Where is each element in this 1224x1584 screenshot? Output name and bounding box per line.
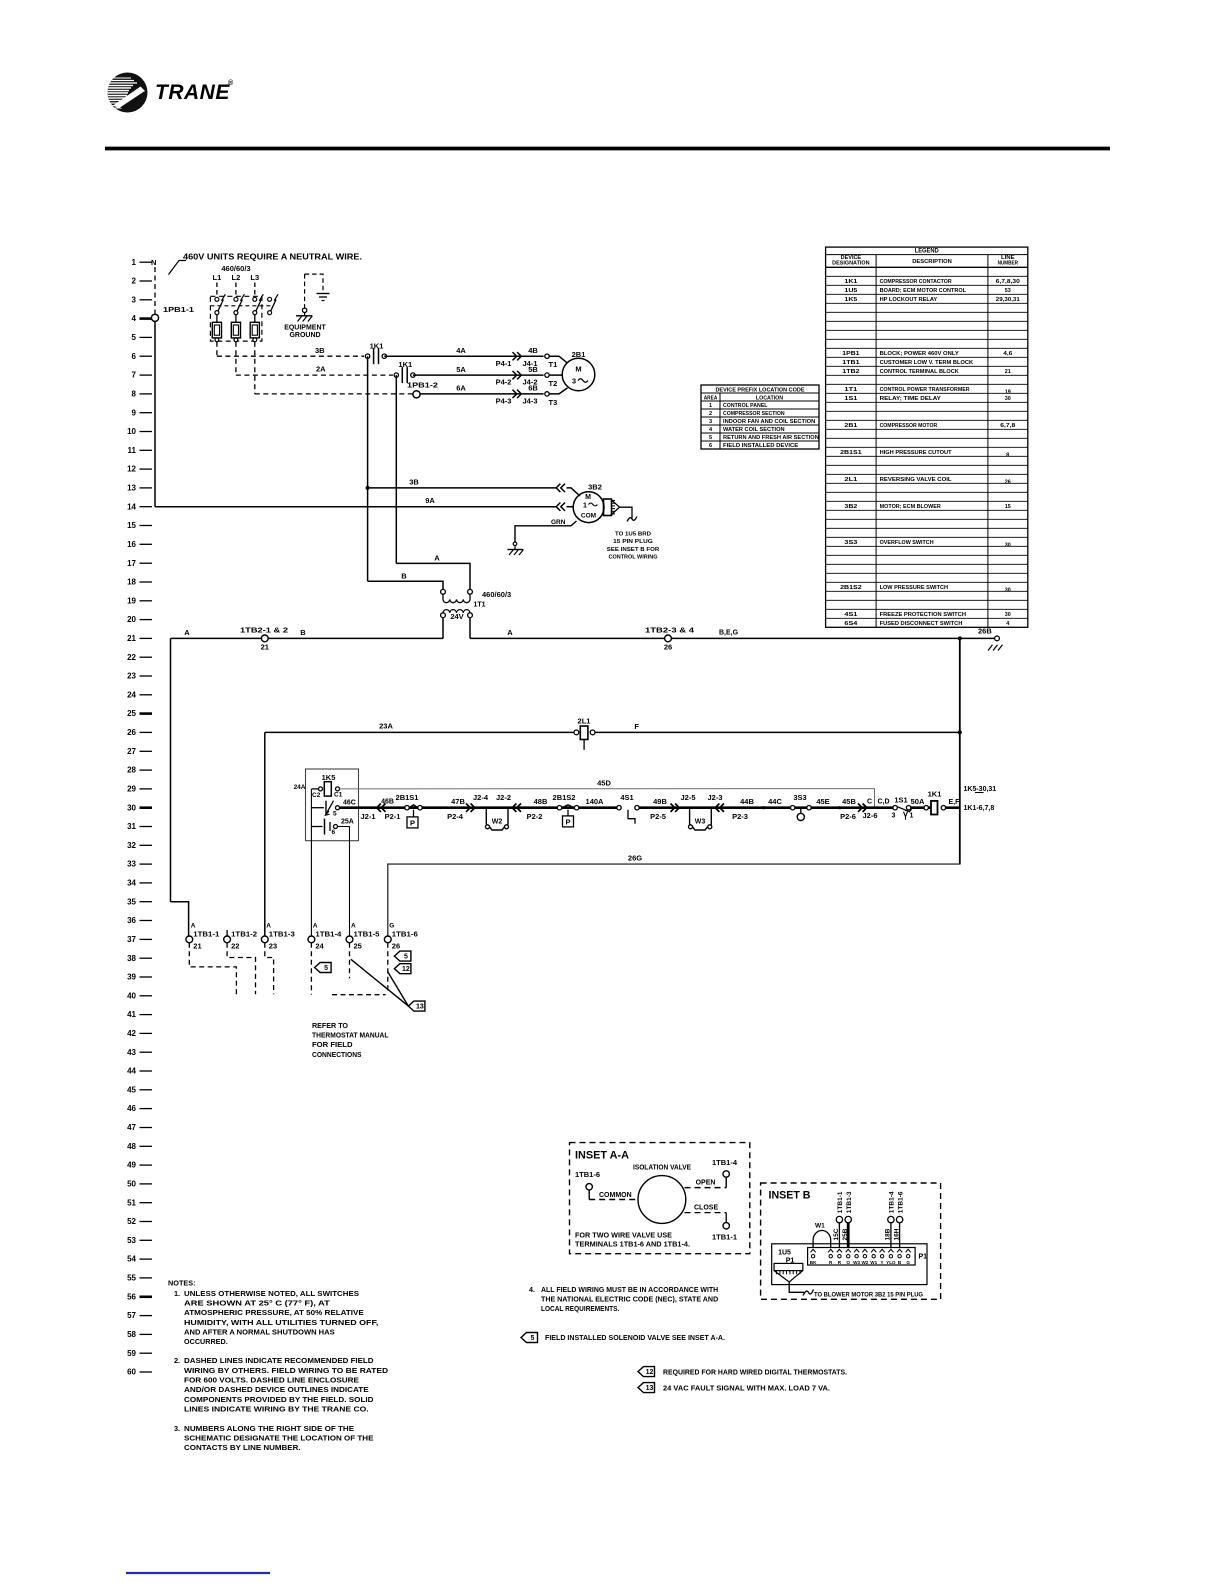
svg-text:46C: 46C bbox=[343, 800, 356, 807]
svg-text:18B: 18B bbox=[885, 1228, 892, 1240]
svg-text:1K1-6,7,8: 1K1-6,7,8 bbox=[964, 805, 995, 812]
line number scale bbox=[127, 258, 152, 1377]
svg-text:HIGH PRESSURE CUTOUT: HIGH PRESSURE CUTOUT bbox=[880, 450, 952, 456]
svg-text:32: 32 bbox=[127, 841, 136, 850]
wire 46C (heavy safety line 30) bbox=[340, 806, 621, 809]
svg-text:50: 50 bbox=[127, 1180, 136, 1189]
svg-text:REVERSING VALVE COIL: REVERSING VALVE COIL bbox=[880, 477, 952, 483]
svg-text:DEVICE PREFIX LOCATION CODE: DEVICE PREFIX LOCATION CODE bbox=[715, 387, 804, 393]
note callout 13 bbox=[408, 1001, 425, 1011]
svg-text:A: A bbox=[191, 923, 196, 930]
svg-text:DESIGNATION: DESIGNATION bbox=[832, 261, 870, 267]
svg-text:T1: T1 bbox=[549, 360, 558, 369]
svg-text:20: 20 bbox=[127, 615, 136, 624]
svg-text:TO 1U5 BRD: TO 1U5 BRD bbox=[615, 532, 651, 538]
svg-text:NUMBER: NUMBER bbox=[998, 261, 1019, 267]
field wiring 1TB1-6 bbox=[387, 943, 389, 994]
svg-text:1TB1: 1TB1 bbox=[842, 360, 860, 366]
svg-text:P1: P1 bbox=[919, 1254, 928, 1261]
svg-text:P4-1: P4-1 bbox=[496, 359, 512, 368]
svg-text:LOCATION: LOCATION bbox=[756, 395, 783, 401]
svg-text:HUMIDITY, WITH ALL UTILITIE: HUMIDITY, WITH ALL UTILITIES TURNED OFF, bbox=[184, 1318, 378, 1327]
svg-text:T2: T2 bbox=[549, 379, 558, 388]
isolation valve bbox=[638, 1176, 686, 1224]
svg-text:24: 24 bbox=[315, 942, 324, 951]
svg-text:7: 7 bbox=[132, 371, 137, 380]
svg-text:30: 30 bbox=[1005, 612, 1011, 618]
svg-text:6B: 6B bbox=[528, 384, 538, 393]
terminal 1TB1-3 (inset B) bbox=[845, 1216, 851, 1222]
terminal 1TB1-2 bbox=[224, 930, 258, 951]
svg-text:B,E,G: B,E,G bbox=[719, 630, 739, 637]
svg-text:15 PIN PLUG: 15 PIN PLUG bbox=[613, 539, 653, 545]
svg-text:2L1: 2L1 bbox=[578, 717, 591, 726]
svg-text:22: 22 bbox=[127, 653, 136, 662]
svg-text:AND AFTER A NORMAL SHUTDOW: AND AFTER A NORMAL SHUTDOWN HAS bbox=[184, 1327, 335, 1336]
svg-text:3B2: 3B2 bbox=[844, 504, 857, 510]
svg-text:1TB1-3: 1TB1-3 bbox=[269, 932, 295, 939]
svg-text:TERMINALS 1TB1-6 AND 1TB1-4: TERMINALS 1TB1-6 AND 1TB1-4. bbox=[575, 1242, 690, 1249]
svg-text:P2-4: P2-4 bbox=[447, 812, 464, 821]
svg-text:CONTACTS BY LINE NUMBER.: CONTACTS BY LINE NUMBER. bbox=[184, 1443, 301, 1452]
svg-text:THE NATIONAL ELECTRIC CODE: THE NATIONAL ELECTRIC CODE (NEC), STATE … bbox=[541, 1297, 718, 1304]
svg-text:LOW PRESSURE SWITCH: LOW PRESSURE SWITCH bbox=[880, 585, 948, 591]
svg-text:3: 3 bbox=[132, 295, 137, 304]
svg-text:41: 41 bbox=[127, 1010, 136, 1019]
svg-text:24: 24 bbox=[127, 690, 136, 699]
svg-text:REFER TO: REFER TO bbox=[312, 1021, 348, 1030]
svg-text:J2-2: J2-2 bbox=[496, 793, 511, 802]
svg-text:TO BLOWER MOTOR 3B2 15 PI: TO BLOWER MOTOR 3B2 15 PIN PLUG bbox=[814, 1291, 923, 1298]
svg-text:19: 19 bbox=[127, 596, 136, 605]
svg-text:57: 57 bbox=[127, 1311, 136, 1320]
svg-text:J4-3: J4-3 bbox=[522, 396, 537, 405]
svg-text:44: 44 bbox=[127, 1067, 136, 1076]
svg-text:AREA: AREA bbox=[704, 395, 718, 401]
notes bbox=[168, 1279, 847, 1453]
svg-text:1TB1-4: 1TB1-4 bbox=[889, 1191, 896, 1213]
svg-text:YLO: YLO bbox=[886, 1260, 896, 1265]
field wiring 1TB1-3 bbox=[265, 943, 274, 995]
svg-text:W1: W1 bbox=[815, 1223, 825, 1230]
svg-text:16H: 16H bbox=[893, 1228, 900, 1240]
svg-text:2B1S2: 2B1S2 bbox=[840, 585, 862, 591]
svg-text:3: 3 bbox=[709, 419, 712, 425]
svg-text:1PB1-2: 1PB1-2 bbox=[407, 383, 438, 390]
svg-text:W1: W1 bbox=[870, 1260, 877, 1265]
svg-text:BOARD; ECM MOTOR CONTROL: BOARD; ECM MOTOR CONTROL bbox=[880, 288, 967, 294]
jumper W1 (inset B) bbox=[813, 1231, 831, 1248]
svg-text:25A: 25A bbox=[341, 819, 354, 826]
svg-text:49: 49 bbox=[127, 1161, 136, 1170]
svg-text:6: 6 bbox=[332, 829, 336, 836]
svg-text:3S3: 3S3 bbox=[793, 793, 806, 802]
svg-text:46: 46 bbox=[127, 1104, 136, 1113]
svg-text:2B1S2: 2B1S2 bbox=[553, 793, 576, 802]
wire left rail to 1TB1-1 bbox=[170, 638, 172, 901]
inset A-A bbox=[570, 1143, 750, 1254]
svg-text:11: 11 bbox=[128, 446, 137, 455]
svg-text:460/60/3: 460/60/3 bbox=[221, 264, 250, 273]
svg-text:CONTROL PANEL: CONTROL PANEL bbox=[723, 403, 768, 409]
svg-text:18: 18 bbox=[127, 578, 136, 587]
svg-text:ARE SHOWN AT 25° C (77°: ARE SHOWN AT 25° C (77° F), AT bbox=[184, 1299, 330, 1308]
svg-text:1TB1-6: 1TB1-6 bbox=[575, 1172, 600, 1179]
svg-text:43: 43 bbox=[127, 1048, 136, 1057]
svg-text:26: 26 bbox=[1005, 480, 1012, 486]
svg-text:INDOOR FAN AND COIL SECTIO: INDOOR FAN AND COIL SECTION bbox=[723, 419, 815, 425]
svg-text:P2-6: P2-6 bbox=[840, 812, 856, 821]
pin R bbox=[837, 1249, 842, 1252]
svg-text:O: O bbox=[846, 1260, 850, 1265]
wire 15C bbox=[838, 1223, 840, 1248]
svg-text:5: 5 bbox=[531, 1335, 535, 1342]
svg-text:51: 51 bbox=[127, 1198, 136, 1207]
wire 18B bbox=[890, 1223, 892, 1248]
svg-text:40: 40 bbox=[127, 991, 136, 1000]
pin G bbox=[906, 1249, 911, 1252]
svg-text:SCHEMATIC DESIGNATE THE LOC: SCHEMATIC DESIGNATE THE LOCATION OF THE bbox=[184, 1434, 374, 1443]
svg-text:23: 23 bbox=[127, 672, 136, 681]
svg-text:26: 26 bbox=[127, 728, 136, 737]
svg-text:39: 39 bbox=[127, 973, 136, 982]
svg-text:3: 3 bbox=[572, 377, 576, 386]
svg-text:A: A bbox=[507, 628, 513, 637]
wire line 21 left bbox=[171, 637, 444, 639]
svg-text:L3: L3 bbox=[250, 273, 259, 282]
svg-text:B: B bbox=[401, 571, 407, 580]
svg-text:FIELD INSTALLED SOLENOID VA: FIELD INSTALLED SOLENOID VALVE SEE INSET… bbox=[545, 1335, 725, 1342]
svg-text:INSET B: INSET B bbox=[769, 1190, 811, 1202]
svg-text:E,F: E,F bbox=[949, 799, 961, 806]
svg-text:23A: 23A bbox=[379, 722, 393, 731]
svg-text:CONNECTIONS: CONNECTIONS bbox=[312, 1050, 362, 1059]
svg-text:42: 42 bbox=[127, 1029, 136, 1038]
svg-text:5: 5 bbox=[404, 954, 408, 961]
svg-text:48: 48 bbox=[127, 1142, 136, 1151]
svg-text:21: 21 bbox=[193, 942, 201, 951]
svg-text:23: 23 bbox=[269, 942, 277, 951]
wire 2A bbox=[235, 342, 237, 375]
svg-text:W3: W3 bbox=[695, 819, 706, 826]
svg-text:30: 30 bbox=[1005, 588, 1011, 594]
svg-text:28: 28 bbox=[127, 766, 136, 775]
svg-text:2.: 2. bbox=[174, 1356, 180, 1365]
blower motor 3B2 bbox=[567, 483, 604, 523]
svg-text:G: G bbox=[389, 923, 394, 930]
svg-text:46B: 46B bbox=[381, 799, 394, 806]
svg-text:2B1: 2B1 bbox=[844, 423, 858, 429]
svg-text:21: 21 bbox=[261, 643, 269, 652]
svg-text:W2: W2 bbox=[492, 819, 503, 826]
field wiring 1TB1-4 bbox=[310, 943, 312, 995]
svg-text:44C: 44C bbox=[768, 797, 782, 806]
svg-text:1TB1-1: 1TB1-1 bbox=[193, 932, 219, 939]
board 1U5 outline bbox=[772, 1244, 927, 1285]
svg-text:9: 9 bbox=[132, 408, 137, 417]
svg-text:W3: W3 bbox=[853, 1260, 860, 1265]
svg-text:1.: 1. bbox=[174, 1289, 180, 1298]
svg-text:24 VAC FAULT SIGNAL WITH: 24 VAC FAULT SIGNAL WITH MAX. LOAD 7 VA. bbox=[663, 1385, 830, 1392]
svg-text:38: 38 bbox=[127, 954, 136, 963]
jumper W2 bbox=[486, 808, 509, 830]
svg-text:56: 56 bbox=[127, 1292, 136, 1301]
svg-text:CLOSE: CLOSE bbox=[694, 1205, 718, 1212]
svg-text:LEGEND: LEGEND bbox=[915, 248, 939, 255]
terminal 1TB1-5 bbox=[346, 923, 380, 951]
pin O bbox=[846, 1249, 851, 1252]
svg-text:DESCRIPTION: DESCRIPTION bbox=[912, 259, 952, 265]
svg-text:W2: W2 bbox=[861, 1260, 868, 1265]
svg-text:4: 4 bbox=[132, 314, 137, 323]
svg-text:F: F bbox=[634, 722, 639, 731]
svg-text:5: 5 bbox=[132, 333, 137, 342]
svg-text:2B1S1: 2B1S1 bbox=[840, 450, 862, 456]
svg-text:WATER COIL SECTION: WATER COIL SECTION bbox=[723, 427, 785, 433]
wire 6A / connector P4-3 J4-3 bbox=[420, 393, 543, 395]
svg-text:25B: 25B bbox=[842, 1228, 849, 1240]
svg-text:1K5: 1K5 bbox=[844, 297, 858, 303]
svg-text:1K1: 1K1 bbox=[928, 790, 942, 799]
svg-text:1TB1-5: 1TB1-5 bbox=[354, 932, 380, 939]
svg-text:4S1: 4S1 bbox=[620, 793, 633, 802]
svg-text:4S1: 4S1 bbox=[844, 612, 858, 618]
svg-text:45B: 45B bbox=[842, 797, 856, 806]
svg-text:8: 8 bbox=[132, 390, 137, 399]
svg-text:6,7,8: 6,7,8 bbox=[1000, 423, 1016, 429]
svg-text:47: 47 bbox=[127, 1123, 136, 1132]
svg-text:26: 26 bbox=[392, 942, 400, 951]
wire A bbox=[395, 375, 397, 563]
wire 5A / connector P4-2 J4-2 bbox=[413, 374, 544, 376]
wire 3B branch (line 13) bbox=[366, 486, 370, 490]
svg-text:1PB1-1: 1PB1-1 bbox=[163, 307, 194, 314]
svg-text:1TB1-2: 1TB1-2 bbox=[231, 932, 257, 939]
svg-text:LINES INDICATE WIRING BY T: LINES INDICATE WIRING BY THE TRANE CO. bbox=[184, 1405, 369, 1414]
svg-text:P2-3: P2-3 bbox=[732, 812, 748, 821]
svg-text:G: G bbox=[906, 1260, 910, 1265]
field wiring 1TB1-2 bbox=[227, 943, 255, 995]
terminal 1TB1-4 (inset B) bbox=[888, 1216, 894, 1222]
svg-text:44B: 44B bbox=[740, 797, 754, 806]
svg-text:30: 30 bbox=[1005, 543, 1011, 549]
svg-text:COMPONENTS PROVIDED BY THE: COMPONENTS PROVIDED BY THE FIELD. SOLID bbox=[184, 1395, 374, 1404]
svg-text:21: 21 bbox=[1005, 369, 1012, 375]
svg-text:AND/OR DASHED DEVICE OUTLIN: AND/OR DASHED DEVICE OUTLINES INDICATE bbox=[184, 1385, 369, 1394]
svg-text:C1: C1 bbox=[334, 792, 343, 799]
svg-text:FREEZE PROTECTION SWITCH: FREEZE PROTECTION SWITCH bbox=[880, 612, 966, 618]
svg-text:P2-5: P2-5 bbox=[650, 812, 666, 821]
wire F to rail bbox=[595, 731, 960, 733]
svg-text:FUSED DISCONNECT SWITCH: FUSED DISCONNECT SWITCH bbox=[880, 621, 963, 627]
svg-text:5B: 5B bbox=[528, 365, 538, 374]
svg-text:19: 19 bbox=[1005, 390, 1012, 396]
svg-text:54: 54 bbox=[127, 1255, 136, 1264]
svg-text:BK: BK bbox=[810, 1260, 817, 1265]
transformer 1T1 bbox=[441, 589, 512, 638]
svg-text:3B: 3B bbox=[315, 346, 325, 355]
note 13 leaders bbox=[351, 959, 409, 1006]
svg-text:A: A bbox=[184, 628, 190, 637]
svg-text:15: 15 bbox=[127, 521, 136, 530]
svg-text:1K5-30,31: 1K5-30,31 bbox=[964, 786, 997, 793]
svg-text:1PB1: 1PB1 bbox=[842, 351, 860, 357]
svg-text:COMPRESSOR SECTION: COMPRESSOR SECTION bbox=[723, 411, 785, 417]
svg-text:J2-3: J2-3 bbox=[707, 793, 722, 802]
svg-text:6: 6 bbox=[709, 443, 712, 449]
svg-text:M: M bbox=[585, 494, 591, 501]
svg-text:P4-2: P4-2 bbox=[496, 378, 512, 387]
svg-text:460/60/3: 460/60/3 bbox=[482, 590, 511, 599]
svg-text:10: 10 bbox=[127, 427, 136, 436]
svg-text:30: 30 bbox=[1005, 396, 1011, 402]
plug to 1U5 board bbox=[604, 499, 661, 561]
svg-text:3: 3 bbox=[892, 813, 896, 820]
svg-text:21: 21 bbox=[127, 634, 136, 643]
svg-text:45E: 45E bbox=[816, 797, 829, 806]
wire B bbox=[368, 581, 443, 589]
svg-text:FOR 600 VOLTS. DASHED LINE: FOR 600 VOLTS. DASHED LINE ENCLOSURE bbox=[184, 1376, 359, 1385]
svg-text:1S1: 1S1 bbox=[894, 796, 907, 805]
svg-text:NUMBERS ALONG THE RIGHT SI: NUMBERS ALONG THE RIGHT SIDE OF THE bbox=[184, 1424, 354, 1433]
pin R bbox=[828, 1249, 833, 1252]
compressor motor 2B1 bbox=[549, 350, 595, 394]
svg-text:MOTOR; ECM BLOWER: MOTOR; ECM BLOWER bbox=[880, 504, 942, 510]
jumper W3 bbox=[689, 808, 712, 830]
svg-text:B: B bbox=[300, 628, 306, 637]
wire COMMON bbox=[588, 1190, 590, 1200]
svg-text:1TB1-6: 1TB1-6 bbox=[392, 932, 418, 939]
svg-text:14: 14 bbox=[127, 502, 136, 511]
svg-text:FOR TWO WIRE VALVE USE: FOR TWO WIRE VALVE USE bbox=[575, 1233, 672, 1240]
svg-text:5: 5 bbox=[333, 811, 337, 818]
svg-text:60: 60 bbox=[127, 1368, 136, 1377]
svg-text:45: 45 bbox=[127, 1085, 136, 1094]
wire OPEN bbox=[685, 1187, 727, 1189]
svg-text:25: 25 bbox=[354, 942, 362, 951]
svg-text:TRANE: TRANE bbox=[155, 81, 230, 104]
ground GRN bbox=[508, 519, 577, 555]
svg-text:COM: COM bbox=[581, 513, 596, 520]
svg-text:C2: C2 bbox=[312, 792, 321, 799]
svg-text:A: A bbox=[434, 554, 440, 563]
svg-text:34: 34 bbox=[127, 879, 136, 888]
pin B bbox=[897, 1249, 902, 1252]
svg-text:C: C bbox=[867, 799, 872, 806]
svg-text:J2-6: J2-6 bbox=[862, 811, 877, 820]
svg-text:3B2: 3B2 bbox=[588, 483, 602, 492]
svg-text:CONTROL WIRING: CONTROL WIRING bbox=[609, 555, 658, 561]
wire line 21 right bbox=[470, 637, 997, 639]
wire 3B bbox=[216, 342, 218, 357]
svg-text:53: 53 bbox=[127, 1236, 136, 1245]
svg-text:5: 5 bbox=[709, 435, 712, 441]
svg-text:1: 1 bbox=[910, 813, 914, 820]
terminal 1TB1-3 bbox=[261, 923, 295, 951]
wire 1-2 to 1PB1-2 bbox=[254, 342, 256, 394]
wire 26G bbox=[388, 864, 960, 936]
svg-text:1T1: 1T1 bbox=[474, 602, 486, 609]
svg-text:J2-4: J2-4 bbox=[473, 793, 489, 802]
svg-text:140A: 140A bbox=[586, 797, 605, 806]
thermostat note bbox=[312, 1021, 389, 1059]
field wiring 1TB1-5 bbox=[349, 943, 351, 979]
pin W3 bbox=[854, 1249, 859, 1252]
title rule bbox=[105, 147, 1110, 151]
svg-text:A: A bbox=[351, 923, 356, 930]
wire neutral dashed bbox=[154, 267, 156, 314]
svg-text:P2-2: P2-2 bbox=[527, 812, 543, 821]
svg-text:9A: 9A bbox=[425, 496, 435, 505]
svg-text:1TB2-3 & 4: 1TB2-3 & 4 bbox=[645, 628, 694, 635]
svg-text:HP LOCKOUT RELAY: HP LOCKOUT RELAY bbox=[880, 297, 938, 303]
svg-text:T3: T3 bbox=[549, 398, 558, 407]
svg-text:P: P bbox=[565, 818, 570, 827]
svg-text:1TB1-4: 1TB1-4 bbox=[712, 1160, 737, 1167]
Trane logo bbox=[105, 73, 234, 113]
svg-text:EQUIPMENT: EQUIPMENT bbox=[284, 325, 326, 332]
svg-text:33: 33 bbox=[127, 860, 136, 869]
svg-text:THERMOSTAT MANUAL: THERMOSTAT MANUAL bbox=[312, 1031, 389, 1040]
svg-text:59: 59 bbox=[127, 1349, 136, 1358]
svg-text:6A: 6A bbox=[456, 384, 466, 393]
field wiring 1TB1-1 bbox=[189, 943, 236, 995]
svg-text:REQUIRED FOR HARD WIRED DI: REQUIRED FOR HARD WIRED DIGITAL THERMOST… bbox=[663, 1369, 847, 1376]
note callout 5 (1TB1-6) bbox=[394, 951, 411, 961]
svg-text:4,6: 4,6 bbox=[1003, 351, 1013, 357]
svg-text:4B: 4B bbox=[528, 346, 538, 355]
pin W1 bbox=[871, 1249, 876, 1252]
inset B bbox=[761, 1183, 941, 1299]
svg-text:6S4: 6S4 bbox=[844, 621, 858, 627]
field wiring bus dashed bbox=[332, 994, 386, 996]
svg-text:FOR FIELD: FOR FIELD bbox=[312, 1040, 353, 1049]
terminal 1TB1-1 (inset B) bbox=[836, 1216, 842, 1222]
svg-text:RELAY; TIME DELAY: RELAY; TIME DELAY bbox=[880, 396, 941, 402]
svg-text:58: 58 bbox=[127, 1330, 136, 1339]
svg-text:1TB1-4: 1TB1-4 bbox=[315, 932, 341, 939]
svg-text:12: 12 bbox=[646, 1369, 654, 1376]
svg-text:FIELD INSTALLED DEVICE: FIELD INSTALLED DEVICE bbox=[723, 443, 798, 449]
wire 4A / connector P4-1 J4-1 bbox=[384, 355, 543, 357]
svg-text:DASHED LINES INDICATE RECOM: DASHED LINES INDICATE RECOMMENDED FIELD bbox=[184, 1356, 374, 1365]
right rail bbox=[959, 638, 961, 864]
svg-text:1TB2-1 & 2: 1TB2-1 & 2 bbox=[240, 628, 288, 635]
svg-text:1TB2: 1TB2 bbox=[842, 369, 859, 375]
device prefix location code table bbox=[701, 385, 819, 449]
node 26B ground terminal bbox=[958, 636, 962, 640]
svg-text:55: 55 bbox=[127, 1274, 136, 1283]
svg-text:12: 12 bbox=[402, 966, 410, 973]
svg-text:12: 12 bbox=[127, 465, 136, 474]
svg-text:RETURN AND FRESH AIR SECTI: RETURN AND FRESH AIR SECTION bbox=[723, 435, 819, 441]
svg-text:22: 22 bbox=[231, 942, 239, 951]
svg-text:36: 36 bbox=[127, 916, 136, 925]
svg-text:26G: 26G bbox=[628, 854, 642, 863]
svg-text:COMPRESSOR MOTOR: COMPRESSOR MOTOR bbox=[880, 423, 938, 429]
equipment ground bbox=[284, 274, 329, 339]
svg-text:2: 2 bbox=[709, 411, 712, 417]
svg-text:J2-1: J2-1 bbox=[360, 812, 375, 821]
terminal 1TB1-4 bbox=[308, 923, 342, 951]
svg-text:NOTES:: NOTES: bbox=[168, 1279, 196, 1288]
svg-text:ALL FIELD WIRING MUST BE: ALL FIELD WIRING MUST BE IN ACCORDANCE W… bbox=[541, 1287, 718, 1294]
svg-text:1TB1-1: 1TB1-1 bbox=[837, 1191, 844, 1213]
footer blue line bbox=[126, 1572, 270, 1574]
svg-text:13: 13 bbox=[416, 1004, 424, 1011]
svg-text:3B: 3B bbox=[409, 477, 419, 486]
legend table bbox=[826, 247, 1028, 627]
